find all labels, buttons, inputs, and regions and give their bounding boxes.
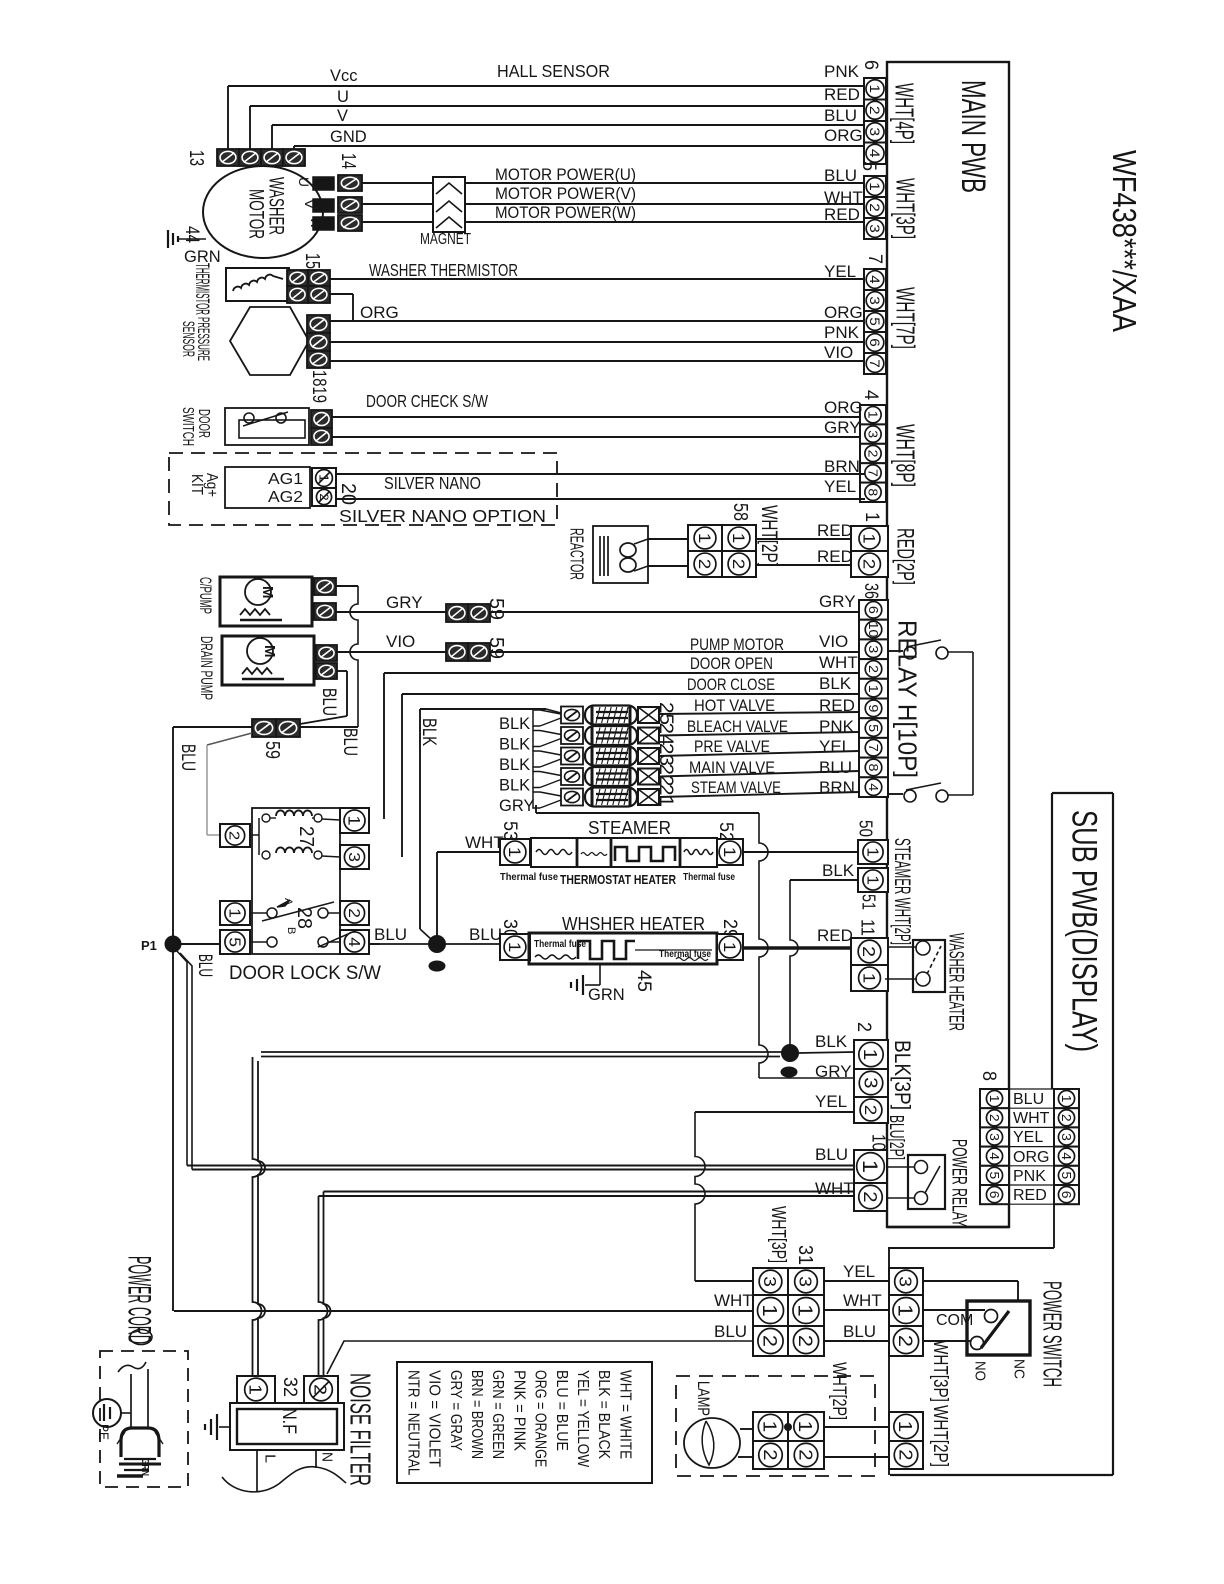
wire BLK valve bus [420, 708, 546, 710]
svg-text:1: 1 [695, 533, 714, 544]
svg-text:4: 4 [860, 390, 881, 400]
svg-text:BLK: BLK [499, 756, 530, 774]
wire WHT from P1 to 31conn [174, 1310, 753, 1312]
svg-text:1: 1 [720, 942, 739, 953]
wire WHT 31conn to power switch conn [824, 1309, 889, 1311]
svg-text:GRY: GRY [819, 592, 856, 611]
svg-text:DOOR: DOOR [195, 409, 212, 438]
wire YEL 31conn to power switch conn [824, 1280, 889, 1282]
svg-text:Thermal fuse: Thermal fuse [683, 871, 735, 883]
svg-text:WHT[3P]: WHT[3P] [929, 1340, 951, 1402]
svg-text:2: 2 [226, 831, 243, 840]
svg-text:WHT: WHT [465, 833, 504, 852]
svg-text:2: 2 [867, 203, 882, 212]
wire valve 2 to relay pin [659, 732, 859, 736]
svg-text:1: 1 [505, 847, 524, 858]
svg-text:BLK = BLACK: BLK = BLACK [595, 1370, 612, 1460]
svg-text:27: 27 [295, 826, 317, 847]
wire YEL silver nano [336, 498, 865, 500]
wire c/pump pin1 BLU down with hops [336, 585, 358, 587]
svg-text:GRN: GRN [588, 986, 625, 1004]
svg-text:WHT[8P]: WHT[8P] [891, 424, 921, 487]
svg-text:BLU: BLU [815, 1145, 848, 1164]
SUB PWB (DISPLAY) board [1052, 792, 1113, 794]
svg-text:WASHER HEATER: WASHER HEATER [944, 933, 967, 1031]
svg-text:BLU: BLU [824, 166, 857, 185]
svg-text:1: 1 [505, 942, 524, 953]
svg-text:44: 44 [181, 226, 202, 243]
valve coil bleach [561, 727, 583, 744]
wire P1 to door lock pin5 [181, 943, 220, 945]
svg-text:PE: PE [96, 1424, 112, 1440]
wire valve 3 to relay pin [659, 751, 859, 756]
wire P1 second branch BLU pair [176, 950, 187, 1166]
svg-text:HALL SENSOR: HALL SENSOR [497, 61, 610, 81]
svg-text:2: 2 [895, 1449, 915, 1460]
connector WHT[4P] on MAIN PWB [864, 78, 886, 100]
door lock switch B [250, 941, 267, 943]
svg-text:MOTOR POWER(V): MOTOR POWER(V) [495, 184, 636, 203]
svg-text:51: 51 [859, 894, 879, 910]
wire lamp to power sw conn 2 [824, 1456, 889, 1458]
svg-text:LAMP: LAMP [694, 1381, 713, 1416]
svg-text:5: 5 [1059, 1172, 1073, 1180]
valve coil steam [561, 789, 583, 806]
svg-text:59: 59 [261, 741, 283, 759]
wire VIO pressure [330, 360, 865, 362]
svg-text:KIT: KIT [188, 474, 205, 495]
wire GRY to pin6 [490, 611, 859, 613]
svg-text:13: 13 [185, 150, 207, 166]
wire valve 1 to relay pin [659, 712, 859, 714]
svg-text:6: 6 [1059, 1191, 1073, 1199]
svg-text:32: 32 [279, 1377, 300, 1397]
svg-text:10: 10 [866, 622, 881, 638]
svg-text:NOISE FILTER: NOISE FILTER [344, 1373, 376, 1486]
svg-text:DOOR LOCK S/W: DOOR LOCK S/W [229, 963, 381, 984]
svg-text:4: 4 [987, 1152, 1001, 1160]
svg-text:STEAMER: STEAMER [588, 817, 671, 838]
washer heater assembly [529, 933, 717, 964]
svg-text:YEL = YELLOW: YEL = YELLOW [574, 1370, 591, 1468]
svg-text:20: 20 [337, 483, 359, 505]
svg-text:BLU = BLUE: BLU = BLUE [553, 1370, 570, 1451]
svg-text:11: 11 [858, 919, 878, 936]
svg-text:2: 2 [795, 1449, 815, 1460]
svg-text:RED: RED [817, 926, 853, 945]
noise filter ground [219, 1426, 230, 1428]
svg-text:1: 1 [860, 534, 878, 544]
wire GRY door check [332, 436, 865, 438]
wire BLU 31conn to power switch conn [824, 1340, 889, 1342]
wire P1 down to WHT 31conn [172, 952, 174, 1311]
svg-text:NO: NO [972, 1361, 989, 1381]
svg-text:POWER RELAY: POWER RELAY [947, 1139, 970, 1227]
wire BRN silver nano [336, 473, 865, 475]
svg-text:VIO: VIO [819, 632, 848, 651]
wire steamer out to 50 [743, 851, 858, 853]
svg-text:1: 1 [1059, 1095, 1073, 1103]
wire power switch col down to sub pwb [888, 1356, 890, 1412]
svg-text:1: 1 [316, 474, 331, 482]
svg-text:DRAIN PUMP: DRAIN PUMP [197, 636, 216, 700]
svg-text:Thermal fuse: Thermal fuse [659, 948, 711, 960]
svg-text:SUB PWB(DISPLAY): SUB PWB(DISPLAY) [1064, 810, 1103, 1052]
wire RED heater bold [743, 946, 851, 949]
wire YEL thermistor [330, 278, 865, 280]
door lock pin1 left [220, 901, 250, 925]
svg-text:31: 31 [794, 1245, 816, 1265]
svg-text:BLU[2P]: BLU[2P] [885, 1115, 907, 1160]
connector 13 (motor hall 4P) [217, 149, 239, 166]
svg-text:1: 1 [867, 182, 882, 191]
svg-text:2: 2 [317, 493, 330, 500]
svg-text:1: 1 [345, 816, 363, 826]
svg-text:4: 4 [345, 937, 362, 947]
svg-text:21: 21 [655, 784, 676, 807]
svg-text:WASHER THERMISTOR: WASHER THERMISTOR [369, 260, 518, 280]
svg-text:BLK: BLK [819, 674, 852, 693]
noise filter L stub [256, 1450, 258, 1491]
svg-text:RED[2P]: RED[2P] [891, 528, 918, 585]
svg-text:SWITCH: SWITCH [179, 407, 196, 446]
wire thermistor pin2 jog to ORG [330, 293, 353, 295]
svg-text:4: 4 [1059, 1152, 1073, 1160]
wire U/RED hall sensor [249, 106, 251, 149]
svg-text:BLEACH VALVE: BLEACH VALVE [687, 718, 788, 736]
connector c/pump pins [314, 578, 336, 595]
svg-text:3: 3 [867, 224, 882, 233]
wire WHT junction up to steamer [436, 852, 438, 936]
wire relay outputs joined [972, 652, 974, 795]
svg-text:50: 50 [856, 820, 876, 837]
svg-text:2: 2 [311, 1384, 331, 1395]
connector 58 WHT[2P] [648, 538, 688, 540]
junction N2 dot on BLK bus [782, 1045, 799, 1062]
svg-text:P1: P1 [141, 938, 157, 953]
svg-text:RED: RED [824, 85, 860, 104]
wire BLU from noise filter to 31conn [327, 1341, 753, 1374]
svg-text:ORG: ORG [1013, 1149, 1049, 1166]
connector 32 pin2 [304, 1376, 338, 1403]
svg-text:WHT: WHT [1013, 1110, 1050, 1127]
connector 18/19 pressure sensor [307, 315, 330, 333]
power cord dashed box [100, 1351, 188, 1487]
svg-text:BLU: BLU [1013, 1091, 1044, 1108]
svg-text:2: 2 [794, 1335, 816, 1347]
motor ground 44 GRN [178, 238, 206, 240]
relay contact pin4 [888, 793, 903, 795]
door lock switch A [250, 912, 267, 914]
svg-text:BRN = BROWN: BRN = BROWN [468, 1370, 485, 1459]
svg-text:1: 1 [794, 1304, 816, 1317]
wire RED to washer heater relay [888, 946, 917, 948]
svg-text:2: 2 [867, 106, 883, 115]
svg-text:MAGNET: MAGNET [420, 231, 471, 248]
svg-text:4: 4 [866, 783, 881, 791]
valve coil pre [561, 748, 583, 765]
svg-text:THERMOSTAT HEATER: THERMOSTAT HEATER [560, 872, 676, 887]
svg-text:8: 8 [866, 764, 881, 772]
svg-text:RED: RED [817, 521, 853, 540]
svg-text:36: 36 [860, 583, 881, 599]
washer motor M1 [203, 166, 323, 258]
wire valve 4 to relay pin [659, 771, 859, 777]
svg-text:BLK: BLK [499, 777, 530, 795]
wire COM to switch [923, 1309, 985, 1311]
svg-text:SILVER NANO OPTION: SILVER NANO OPTION [339, 506, 546, 526]
svg-text:2: 2 [987, 1114, 1001, 1122]
wire 59 to c/pump vertical [300, 726, 358, 728]
svg-text:1: 1 [729, 533, 748, 544]
svg-text:V: V [302, 199, 318, 210]
svg-text:BLU: BLU [714, 1322, 747, 1341]
svg-text:BLU: BLU [824, 106, 857, 125]
connector 15 thermistor [287, 270, 308, 286]
svg-text:2: 2 [729, 559, 748, 570]
connector 20 Ag+ [312, 468, 336, 488]
svg-text:GRY = GRAY: GRY = GRAY [447, 1370, 464, 1451]
svg-text:MOTOR POWER(U): MOTOR POWER(U) [495, 165, 636, 184]
svg-text:PNK = PINK: PNK = PINK [510, 1370, 527, 1452]
svg-text:WHT[3P]: WHT[3P] [767, 1206, 789, 1263]
svg-text:7: 7 [866, 744, 881, 752]
svg-text:1: 1 [867, 84, 883, 93]
wire drain pump pin2 BLU [337, 670, 347, 672]
svg-text:YEL: YEL [1013, 1129, 1043, 1146]
svg-text:6: 6 [866, 606, 881, 614]
svg-text:MOTOR POWER(W): MOTOR POWER(W) [495, 203, 636, 222]
svg-text:WHT: WHT [819, 653, 858, 672]
connector door check [311, 410, 332, 428]
svg-text:1: 1 [866, 685, 881, 693]
connector 59 gry [446, 604, 468, 622]
svg-text:WF438***/XAA: WF438***/XAA [1106, 150, 1143, 332]
svg-text:2: 2 [859, 946, 879, 957]
svg-text:RED: RED [1013, 1187, 1047, 1204]
svg-text:WHSHER HEATER: WHSHER HEATER [562, 913, 705, 934]
svg-text:B: B [285, 927, 297, 934]
wire WHT steamer [437, 851, 500, 853]
motor terminals U V W [313, 177, 334, 190]
svg-text:SENSOR: SENSOR [179, 321, 198, 357]
wire BLK steamer return [790, 879, 858, 881]
svg-text:BLU: BLU [177, 744, 198, 771]
door lock coil 27 [250, 834, 259, 836]
svg-text:BLU: BLU [374, 925, 407, 944]
svg-text:Thermal fuse: Thermal fuse [500, 871, 558, 883]
connector WHT[7P] on MAIN PWB [864, 269, 886, 290]
wire valve 5 to relay pin [659, 792, 859, 797]
svg-text:VIO = VIOLET: VIO = VIOLET [426, 1370, 443, 1468]
wire WHT pair from noise filter [319, 1195, 855, 1197]
svg-text:YEL: YEL [819, 737, 851, 756]
svg-text:BLU: BLU [469, 925, 502, 944]
wire BLU door lock pin4 to heater [369, 943, 500, 945]
wire PNK pressure [330, 341, 865, 343]
wire GND/ORG hall sensor [293, 146, 295, 149]
door lock pin2 left [220, 824, 250, 847]
wire GRY valve bus down [535, 805, 537, 813]
svg-text:POWER SWITCH: POWER SWITCH [1038, 1281, 1068, 1387]
svg-text:2: 2 [894, 1335, 916, 1347]
svg-text:U: U [337, 88, 349, 106]
valve coil main [561, 768, 583, 785]
svg-text:RED: RED [819, 696, 855, 715]
svg-text:1819: 1819 [308, 370, 329, 403]
svg-text:58: 58 [729, 503, 751, 521]
svg-text:MOTOR: MOTOR [244, 189, 267, 239]
noise filter pin2 vertical pair [319, 1196, 328, 1376]
PE plug symbol [93, 1399, 121, 1427]
svg-text:ORG: ORG [824, 303, 863, 322]
power relay [887, 1166, 914, 1168]
relay contact pin3 [888, 650, 903, 652]
svg-text:GRY: GRY [815, 1062, 852, 1081]
connector RED[2P] on MAIN PWB [851, 526, 888, 551]
svg-text:6: 6 [860, 60, 881, 70]
wire BLU motor power(U) to pwb [465, 182, 865, 184]
cable wave [222, 1467, 346, 1492]
svg-text:NC: NC [1011, 1359, 1028, 1379]
svg-text:1: 1 [759, 1421, 780, 1433]
svg-text:DOOR CHECK S/W: DOOR CHECK S/W [366, 391, 488, 411]
svg-text:WHT[2P]: WHT[2P] [828, 1362, 849, 1420]
svg-text:28: 28 [293, 907, 315, 929]
svg-text:GND: GND [330, 128, 367, 146]
connector WHT[2P] on power switch column [889, 1412, 923, 1441]
svg-text:1: 1 [720, 847, 739, 858]
junction P1 [165, 936, 181, 952]
wire lamp to power sw conn 1 [824, 1426, 889, 1428]
connector power switch WHT[3P] [889, 1268, 923, 1295]
svg-text:BLK: BLK [499, 715, 530, 733]
svg-text:ORG: ORG [824, 126, 863, 145]
wire RED reactor 2 [756, 564, 851, 566]
svg-text:ORG: ORG [824, 398, 863, 417]
wire RED motor power(W) to pwb [465, 221, 865, 223]
svg-text:4: 4 [867, 275, 882, 284]
svg-text:5: 5 [987, 1172, 1001, 1180]
svg-text:3: 3 [860, 1077, 880, 1088]
svg-text:BLU: BLU [194, 954, 215, 977]
svg-text:1: 1 [866, 411, 880, 419]
svg-text:BLU: BLU [339, 728, 360, 756]
svg-text:REACTOR: REACTOR [567, 528, 587, 580]
svg-text:1: 1 [987, 1095, 1001, 1103]
svg-text:3: 3 [760, 1276, 780, 1287]
svg-text:2: 2 [695, 559, 714, 570]
svg-text:PRE VALVE: PRE VALVE [694, 738, 770, 756]
door lock pin2 right [340, 901, 369, 925]
lamp symbol [684, 1418, 740, 1468]
svg-text:RELAY H[10P]: RELAY H[10P] [893, 620, 923, 778]
svg-text:GRY: GRY [499, 797, 534, 815]
svg-text:2: 2 [759, 1335, 781, 1347]
svg-text:ORG: ORG [360, 303, 399, 322]
svg-text:BLK: BLK [822, 861, 855, 880]
svg-text:GRN = GREEN: GRN = GREEN [489, 1370, 506, 1459]
svg-text:2: 2 [866, 665, 881, 673]
svg-text:1: 1 [894, 1421, 915, 1433]
connector 14 (motor power) [338, 175, 362, 191]
svg-text:1: 1 [863, 875, 880, 885]
svg-text:1: 1 [758, 1304, 780, 1317]
svg-text:C/PUMP: C/PUMP [196, 577, 215, 614]
MAIN PWB board outline [887, 62, 1009, 1227]
svg-text:STEAMER WHT[2P]: STEAMER WHT[2P] [890, 838, 915, 945]
svg-text:5: 5 [225, 937, 242, 947]
svg-text:59: 59 [485, 598, 507, 620]
svg-text:WHT: WHT [843, 1291, 882, 1310]
svg-text:4: 4 [867, 149, 883, 158]
svg-text:5: 5 [858, 161, 879, 171]
svg-text:U: U [296, 177, 312, 187]
svg-text:1: 1 [859, 973, 878, 984]
svg-text:1: 1 [863, 847, 880, 857]
wire Vcc/PNK hall sensor [227, 86, 229, 149]
svg-text:3: 3 [796, 1276, 816, 1287]
svg-text:BLU: BLU [318, 688, 339, 716]
steamer heater assembly [531, 838, 717, 867]
svg-text:7: 7 [864, 254, 885, 264]
svg-text:SILVER NANO: SILVER NANO [384, 473, 481, 493]
svg-text:1: 1 [858, 1160, 882, 1173]
wire YEL pin3 to switch NC [923, 1280, 1018, 1282]
svg-text:WHT = WHITE: WHT = WHITE [616, 1370, 633, 1459]
svg-text:15: 15 [301, 253, 323, 269]
svg-text:WHT[2P]: WHT[2P] [929, 1405, 951, 1467]
svg-text:MAIN VALVE: MAIN VALVE [689, 759, 775, 777]
lamp dashed box [676, 1376, 875, 1476]
svg-text:1: 1 [246, 1384, 266, 1395]
svg-text:3: 3 [1059, 1133, 1073, 1141]
svg-text:THERMISTOR: THERMISTOR [191, 263, 212, 315]
valve coil hot [561, 707, 583, 724]
Ag+ kit dashed box [169, 453, 557, 525]
svg-text:1: 1 [794, 1421, 815, 1433]
svg-text:M: M [261, 645, 278, 658]
svg-text:YEL: YEL [824, 262, 856, 281]
svg-text:PUMP MOTOR: PUMP MOTOR [690, 636, 784, 654]
svg-text:3: 3 [345, 852, 362, 862]
power cord plug [121, 1428, 159, 1457]
svg-text:PNK: PNK [1013, 1168, 1046, 1185]
svg-text:VIO: VIO [386, 632, 415, 651]
noise filter N stub [315, 1450, 317, 1468]
svg-text:AG1: AG1 [268, 471, 303, 488]
svg-text:PNK: PNK [824, 62, 860, 81]
wire motor power U [362, 182, 433, 184]
svg-text:BLK: BLK [418, 718, 439, 746]
junction N1 dot [429, 936, 446, 953]
connector WHT[3P] on MAIN PWB [864, 176, 886, 197]
svg-text:2: 2 [345, 908, 362, 918]
wire BLU pair from P1 [187, 1165, 854, 1167]
connector drain pump pins [316, 645, 337, 661]
wire BLK valve bus down to junction [419, 709, 421, 929]
wire color legend box [397, 1362, 652, 1483]
svg-text:BLU: BLU [843, 1322, 876, 1341]
svg-text:HOT VALVE: HOT VALVE [694, 697, 775, 715]
svg-text:WHT[7P]: WHT[7P] [891, 287, 921, 349]
wire WHT door open [383, 673, 385, 819]
connector 59 bottom [252, 719, 276, 737]
power switch S2 [967, 1301, 1030, 1355]
svg-text:VIO: VIO [824, 343, 853, 362]
connector BLK[3P] on MAIN PWB [854, 1040, 888, 1069]
wire BLK junction to BLK[3P] [798, 1052, 854, 1053]
